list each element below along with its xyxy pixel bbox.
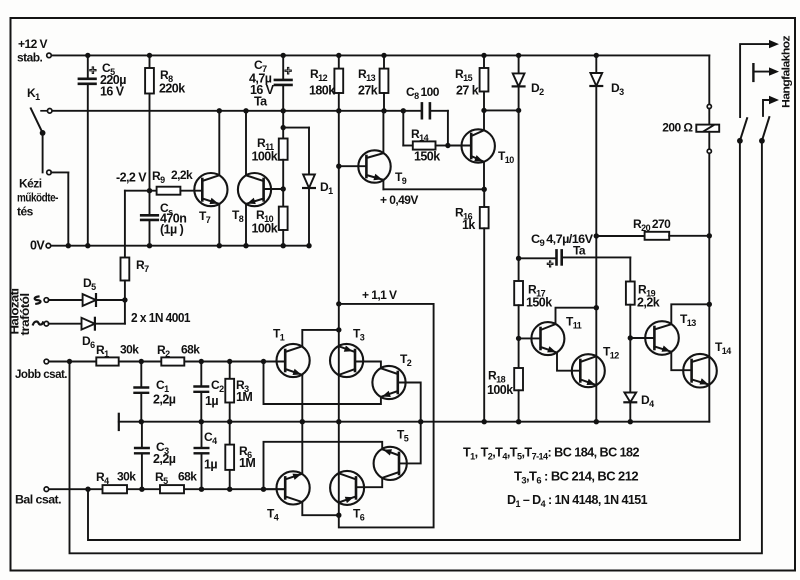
capacitor C1: [135, 362, 149, 422]
wire T10 base: [448, 145, 471, 147]
svg-text:Hangfalakhoz: Hangfalakhoz: [781, 35, 793, 108]
resistor R9: [150, 187, 203, 195]
transistor T11: [531, 322, 564, 355]
svg-text:Bal csat.: Bal csat.: [15, 493, 61, 507]
kezi manual contact: [43, 133, 69, 246]
wire Jobb csat rail: [49, 359, 286, 364]
resistor R4: [103, 485, 128, 493]
transistor T14: [683, 354, 717, 388]
capacitor C8: [403, 103, 448, 145]
svg-text:stab.: stab.: [17, 51, 42, 65]
svg-text:2,2µ: 2,2µ: [153, 393, 176, 407]
wire T5 base: [399, 422, 421, 464]
transistor T7: [194, 173, 227, 206]
wire T13 base: [630, 337, 654, 339]
wire T10 collector: [483, 110, 485, 130]
diode D2: [513, 55, 525, 110]
svg-text:+12 V: +12 V: [18, 37, 47, 51]
resistor R1: [96, 357, 118, 365]
diode D1: [283, 128, 315, 246]
wire D3 line down: [594, 233, 599, 421]
resistor R12: [334, 55, 343, 110]
wire 0V rail: [51, 243, 312, 248]
terminal 0V: [46, 243, 51, 248]
svg-text:+: +: [547, 259, 554, 271]
terminal Jobb csat: [44, 359, 49, 364]
transistor T10: [462, 129, 495, 162]
wire T4 base: [264, 488, 286, 490]
wire T9 base: [339, 165, 367, 167]
wire T10 emitter: [483, 162, 485, 190]
svg-text:+: +: [89, 64, 96, 78]
wire T9 emitter: [383, 180, 487, 192]
wire center line T9 base node: [336, 111, 341, 307]
svg-text:2,2k: 2,2k: [637, 296, 660, 310]
svg-text:100k: 100k: [252, 150, 278, 164]
svg-text:1µ: 1µ: [205, 394, 218, 408]
wire speaker 2 to Jobb: [70, 141, 762, 554]
wire T8 base: [264, 188, 284, 190]
svg-text:30k: 30k: [117, 470, 136, 484]
svg-text:T3​,T6​ : BC 214, BC 212: T3​,T6​ : BC 214, BC 212: [514, 470, 639, 486]
svg-text:2,2k: 2,2k: [171, 168, 193, 182]
resistor R13: [380, 55, 389, 110]
wire relay to T13 T14: [707, 236, 712, 422]
resistor R8: [145, 55, 154, 193]
wire R15 D2 node: [481, 108, 521, 113]
capacitor Cs: [141, 191, 158, 246]
wire T2 base: [398, 383, 421, 422]
svg-text:1M: 1M: [239, 456, 255, 470]
wire K1 rail: [52, 108, 406, 113]
capacitor C7: [275, 55, 292, 110]
svg-text:1M: 1M: [236, 390, 252, 404]
resistor R5: [160, 485, 184, 493]
transistor T1: [277, 344, 310, 377]
svg-text:150k: 150k: [414, 150, 440, 164]
relay coil 200 Ohm: [696, 55, 719, 238]
transistor T4: [277, 471, 310, 504]
svg-text:68k: 68k: [181, 343, 200, 357]
wire T5 emitter feedback: [264, 442, 383, 489]
wire T1 emitter: [301, 375, 303, 422]
transistor T3: [330, 344, 363, 377]
svg-text:220k: 220k: [159, 82, 185, 96]
transistor T5: [374, 447, 407, 480]
wire center line through array: [336, 304, 341, 518]
svg-text:Kézi: Kézi: [19, 177, 42, 191]
diode D6: [44, 300, 125, 330]
svg-text:2 x 1N 4001: 2 x 1N 4001: [131, 311, 191, 325]
svg-text:1k: 1k: [462, 218, 475, 232]
svg-text:működte-: működte-: [17, 191, 58, 205]
wire T11 collector: [556, 308, 597, 324]
svg-text:trafótól: trafótól: [18, 293, 32, 335]
wire T9 collector: [382, 111, 384, 153]
node T8 base: [281, 160, 286, 207]
wire +12V rail: [51, 53, 709, 58]
wire mid rail: [119, 414, 710, 430]
resistor R17: [514, 281, 523, 368]
svg-text:Ta: Ta: [254, 95, 268, 109]
AC squiggle 1: [35, 297, 41, 304]
svg-text:2,2µ: 2,2µ: [153, 452, 176, 466]
svg-text:0V: 0V: [30, 239, 45, 253]
transistor T9: [358, 150, 390, 182]
resistor R14: [403, 111, 450, 150]
wire T2 emitter feedback: [264, 362, 381, 405]
capacitor C4: [195, 422, 209, 490]
svg-text:100k: 100k: [487, 383, 513, 397]
resistor R7: [121, 258, 130, 303]
transistor T6: [330, 471, 364, 505]
wire T11 base: [519, 337, 541, 339]
capacitor C2: [195, 362, 209, 422]
wire T4 emitter: [302, 502, 339, 515]
transistor T13: [645, 321, 679, 355]
svg-text:150k: 150k: [526, 296, 552, 310]
svg-text:68k: 68k: [178, 470, 197, 484]
diode D3: [590, 55, 602, 236]
svg-text:30k: 30k: [120, 343, 139, 357]
resistor R6: [225, 422, 234, 490]
svg-text:+ 0,49V: + 0,49V: [380, 193, 418, 207]
svg-text:(1µ ): (1µ ): [160, 223, 184, 237]
wire T13 collector: [671, 304, 709, 324]
wire -2.2V node: [125, 191, 150, 258]
svg-text:+ 1,1 V: + 1,1 V: [362, 288, 397, 302]
svg-text:-2,2 V: -2,2 V: [116, 171, 147, 185]
svg-text:1µ: 1µ: [204, 458, 217, 472]
relay contact blade 2: [759, 117, 769, 144]
transistor T2: [372, 366, 405, 399]
wire T5 collector to T6 base: [356, 478, 382, 487]
svg-text:C8​ 100: C8​ 100: [406, 85, 440, 101]
wire T13 emitter to T14 base: [671, 352, 691, 370]
terminal Bal csat: [44, 487, 49, 492]
speaker arrow 1: [740, 40, 779, 117]
svg-text:tés: tés: [17, 205, 34, 219]
resistor R3: [225, 362, 234, 422]
resistor R20: [596, 232, 709, 240]
relay contact blade 1: [737, 118, 747, 144]
wire T1 base: [264, 361, 286, 363]
wire T4 collector: [301, 422, 303, 474]
capacitor C5: [79, 55, 96, 245]
svg-text:Jobb csat.: Jobb csat.: [15, 367, 67, 381]
transistor T12: [572, 354, 605, 387]
AC squiggle 2: [33, 322, 43, 325]
wire speaker 1 to Bal: [88, 141, 740, 540]
resistor R19: [626, 282, 635, 341]
diode D4: [624, 338, 636, 422]
resistor R15: [480, 55, 489, 110]
wire T3 base to T2 collector: [355, 362, 381, 369]
resistor R2: [161, 357, 184, 365]
transistor T8: [238, 173, 271, 206]
speaker arrow 2 common: [753, 64, 779, 81]
svg-text:180k: 180k: [309, 84, 335, 98]
svg-text:Ta: Ta: [573, 244, 586, 258]
svg-text:D1​ – D4​ : 1N 4148, 1N 4151: D1​ – D4​ : 1N 4148, 1N 4151: [507, 493, 648, 509]
diode D5: [44, 294, 125, 306]
resistor R11: [279, 139, 288, 160]
wire +1.1V loop: [339, 304, 434, 528]
wire T7 collector emitter line: [218, 111, 220, 246]
terminal +12V stab: [47, 53, 52, 58]
wire D2 line down: [516, 110, 521, 281]
wire Bal csat rail: [49, 487, 286, 492]
capacitor C9: [519, 250, 631, 281]
speaker arrow 3: [763, 96, 779, 116]
svg-text:200 Ω: 200 Ω: [662, 121, 693, 135]
resistor R18: [514, 368, 523, 422]
svg-text:R20​ 270: R20​ 270: [633, 217, 671, 233]
capacitor C3: [135, 422, 149, 490]
wire T11 emitter to T12 base: [557, 353, 580, 371]
svg-text:+: +: [285, 64, 292, 78]
wire C7 to R11 node: [281, 111, 286, 139]
wire T1 collector: [302, 327, 341, 346]
svg-text:16 V: 16 V: [100, 85, 125, 99]
svg-text:27 k: 27 k: [456, 84, 479, 98]
svg-text:100k: 100k: [252, 222, 278, 236]
resistor R16: [480, 189, 489, 421]
switch K1: [31, 108, 52, 135]
svg-text:27k: 27k: [358, 84, 378, 98]
resistor R10: [279, 207, 288, 246]
wire T8 collector emitter line: [245, 111, 247, 246]
